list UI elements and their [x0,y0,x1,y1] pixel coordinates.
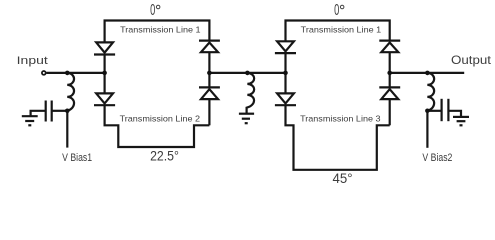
svg-text:45°: 45° [332,171,352,186]
svg-text:Transmission Line 2: Transmission Line 2 [120,114,201,124]
svg-text:Input: Input [17,54,49,66]
svg-text:V Bias2: V Bias2 [422,152,452,164]
svg-text:0: 0 [150,1,155,19]
svg-text:V Bias1: V Bias1 [62,152,92,164]
svg-text:Transmission Line 3: Transmission Line 3 [300,114,381,124]
svg-text:Output: Output [451,54,492,67]
svg-text:Transmission Line 1: Transmission Line 1 [120,25,201,35]
svg-text:Transmission Line 1: Transmission Line 1 [301,25,382,35]
svg-text:22.5°: 22.5° [150,148,179,164]
svg-text:0: 0 [334,1,339,19]
